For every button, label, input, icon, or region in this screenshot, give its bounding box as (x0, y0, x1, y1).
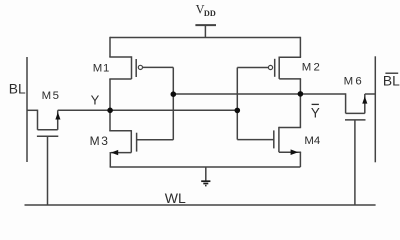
svg-text:WL: WL (165, 190, 186, 206)
arrow on M6 (points up) (362, 96, 367, 103)
wire: BL bit line (26, 57, 28, 162)
junction dot left gates on Ybar line (171, 91, 177, 97)
wire: M6 to BLbar stub (365, 93, 376, 95)
svg-text:Y: Y (311, 105, 320, 120)
junction dot right gates on Y line (235, 108, 241, 114)
svg-text:BL: BL (9, 81, 26, 96)
svg-text:M5: M5 (42, 90, 61, 102)
overbar of BLbar (385, 72, 398, 74)
transistor M4 (NMOS) (274, 127, 301, 167)
junction dot node Y (107, 108, 113, 114)
arrow on M4 source (points right) (291, 149, 299, 155)
wire: M2 drain down to node Ybar and M4 (299, 79, 301, 128)
wire: WL word line rail (25, 204, 376, 206)
svg-text:BL: BL (383, 74, 400, 89)
svg-text:DD: DD (204, 9, 216, 18)
VDD bar (195, 24, 216, 26)
wire: BL stub to M5 (27, 109, 38, 111)
svg-text:M1: M1 (93, 63, 110, 75)
wire: right drop from rail to M2 (299, 37, 301, 57)
transistor M5 (NMOS access) (37, 110, 58, 205)
transistor M1 (PMOS) (109, 56, 142, 79)
transistor M3 (NMOS) (109, 110, 136, 167)
wire: node Ybar horizontal line (173, 93, 345, 95)
svg-text:M6: M6 (344, 76, 364, 88)
overbar of Ybar (312, 103, 319, 105)
ground stem (205, 167, 207, 181)
svg-text:M4: M4 (304, 135, 320, 147)
wire: M4 gate wire (237, 139, 273, 141)
VDD stem wire (204, 25, 206, 37)
wire: mid ground rail (110, 166, 301, 168)
arrow on M5 (points up) (55, 112, 60, 119)
wire: M1 drain down to node Y (109, 79, 111, 110)
wire: left drop from rail to M1 (109, 37, 111, 57)
arrow on M3 source (points left) (111, 150, 118, 155)
wire: M1 gate to cross node (143, 66, 174, 68)
transistor M6 (NMOS access) (345, 93, 366, 205)
svg-text:M3: M3 (90, 134, 110, 148)
wire: M3 gate wire (137, 139, 174, 141)
ground symbol (201, 181, 210, 185)
wire: M2 gate to cross node (237, 67, 268, 69)
transistor M2 (PMOS) (268, 57, 301, 79)
wire: node Y horizontal line (58, 109, 238, 111)
junction dot node Ybar (298, 91, 304, 97)
svg-text:M2: M2 (302, 62, 322, 74)
wire: BLbar bit line (374, 56, 376, 162)
wire: left cross vertical (M1/M3 gates to Ybar line) (172, 67, 174, 139)
wire: top VDD rail (110, 37, 300, 39)
svg-text:Y: Y (91, 93, 100, 108)
wire: right cross vertical (M2/M4 gates to Y line) (236, 68, 238, 140)
